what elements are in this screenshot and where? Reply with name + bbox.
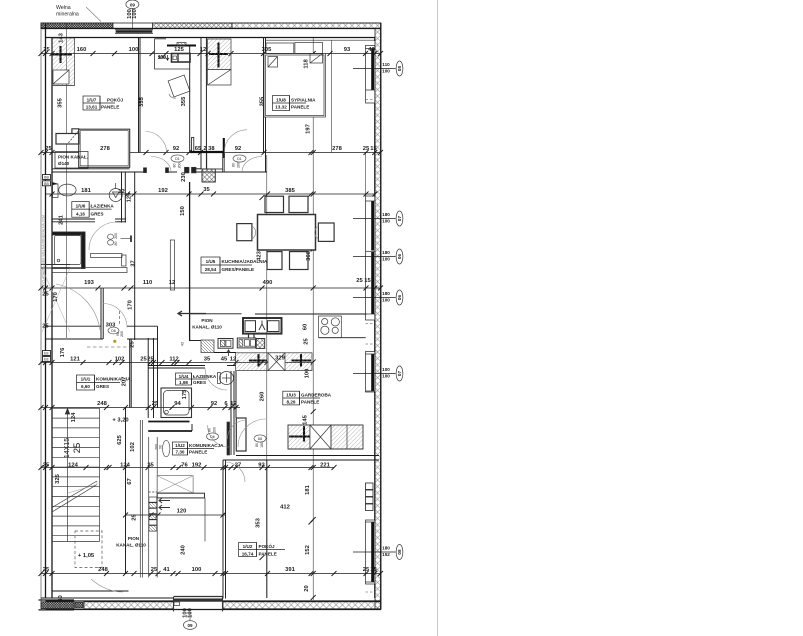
svg-text:192: 192 [192,463,202,469]
svg-text:241: 241 [59,214,65,224]
svg-text:D6: D6 [210,435,215,439]
svg-text:KANAŁ, Ø110: KANAŁ, Ø110 [192,325,222,330]
svg-text:200: 200 [178,163,182,169]
svg-text:D8: D8 [258,437,263,441]
svg-text:125: 125 [174,47,184,53]
svg-text:143: 143 [59,32,65,42]
svg-text:355: 355 [181,96,187,106]
svg-text:08: 08 [397,549,402,555]
svg-text:121: 121 [70,357,80,363]
svg-text:366: 366 [306,250,312,260]
svg-text:mineralna: mineralna [56,12,79,18]
svg-text:200: 200 [237,162,241,168]
svg-text:124: 124 [68,463,78,469]
svg-text:1/U1: 1/U1 [81,377,91,382]
svg-text:102: 102 [130,442,136,452]
svg-text:180: 180 [382,250,390,255]
svg-text:12: 12 [230,357,236,363]
svg-text:160: 160 [77,47,87,53]
svg-text:355: 355 [139,96,145,106]
svg-text:8,29: 8,29 [287,400,296,405]
svg-text:PION: PION [128,536,140,541]
svg-text:KOMUNIKACJA: KOMUNIKACJA [189,443,224,448]
svg-text:248: 248 [97,401,107,407]
svg-text:325: 325 [55,473,61,483]
svg-text:08: 08 [397,66,402,72]
svg-text:25: 25 [43,463,50,469]
svg-text:181: 181 [305,484,311,494]
svg-text:60: 60 [303,324,309,330]
svg-text:1/U3: 1/U3 [286,393,296,398]
svg-text:92: 92 [258,463,264,469]
svg-text:197: 197 [306,124,312,134]
svg-text:41: 41 [163,567,170,573]
svg-text:35: 35 [203,187,210,193]
svg-text:240: 240 [181,545,187,555]
svg-text:391: 391 [285,567,295,573]
svg-text:170: 170 [53,292,59,302]
svg-text:90: 90 [159,445,163,449]
svg-text:+ 3,20: + 3,20 [112,418,128,424]
svg-text:76: 76 [181,463,188,469]
svg-text:25: 25 [363,146,370,152]
svg-text:GRES: GRES [91,211,104,216]
svg-text:25: 25 [356,278,363,284]
svg-text:100: 100 [192,567,202,573]
svg-text:200: 200 [114,233,118,239]
svg-text:Wełna: Wełna [56,5,71,11]
svg-text:ŁAZIENKA: ŁAZIENKA [193,374,217,379]
svg-text:355: 355 [260,96,266,106]
svg-text:100: 100 [382,298,390,303]
svg-text:93: 93 [344,47,351,53]
svg-text:SYPIALNIA: SYPIALNIA [291,98,316,103]
svg-text:80: 80 [173,164,177,168]
svg-text:25: 25 [130,341,136,348]
svg-text:D6: D6 [111,329,116,333]
svg-text:100: 100 [158,55,166,60]
svg-text:25: 25 [72,443,83,454]
svg-text:07: 07 [397,371,402,377]
svg-text:25: 25 [132,514,138,521]
svg-text:248: 248 [98,567,108,573]
svg-text:152: 152 [305,545,311,555]
svg-text:25: 25 [43,567,50,573]
svg-text:170: 170 [128,300,134,310]
svg-text:120: 120 [177,509,187,515]
svg-text:329: 329 [275,356,285,362]
svg-text:D1: D1 [237,157,242,161]
svg-text:DYLATACJA 4MM WEŁNA MINERALNA: DYLATACJA 4MM WEŁNA MINERALNA 2CM [42,215,46,286]
svg-text:100: 100 [382,219,390,224]
svg-text:25: 25 [147,463,154,469]
svg-text:305: 305 [262,47,272,53]
svg-text:100: 100 [382,257,390,262]
svg-text:1/U6: 1/U6 [76,203,86,208]
svg-text:200: 200 [120,331,124,337]
svg-text:152: 152 [382,552,390,557]
svg-text:25: 25 [147,357,154,363]
svg-text:2 38: 2 38 [203,146,215,152]
svg-text:1,98: 1,98 [179,380,188,385]
svg-text:1/U2: 1/U2 [243,544,253,549]
svg-text:PION: PION [201,318,213,323]
svg-text:25: 25 [363,567,370,573]
svg-text:13,32: 13,32 [275,105,287,110]
svg-text:25: 25 [151,567,158,573]
svg-text:80: 80 [208,428,212,432]
svg-text:20: 20 [304,585,310,591]
svg-text:PANELE: PANELE [259,552,277,557]
svg-text:12: 12 [230,401,236,407]
svg-text:BB: BB [44,176,49,180]
svg-text:230: 230 [181,172,187,182]
svg-text:25: 25 [304,338,310,345]
svg-text:13,61: 13,61 [86,105,98,110]
svg-text:193: 193 [84,280,94,286]
svg-text:124: 124 [120,463,130,469]
svg-text:PANELE: PANELE [301,400,319,405]
svg-text:150: 150 [180,206,186,216]
svg-text:BB: BB [44,182,49,186]
svg-text:175: 175 [182,389,188,399]
svg-text:16,74: 16,74 [242,552,254,557]
svg-text:1/U8: 1/U8 [276,98,286,103]
svg-text:09: 09 [130,2,136,7]
svg-text:278: 278 [100,146,110,152]
svg-text:355: 355 [58,97,64,107]
svg-text:625: 625 [117,434,123,444]
svg-text:124: 124 [71,412,77,422]
svg-text:181: 181 [81,188,91,194]
svg-text:37: 37 [131,260,137,266]
svg-text:07: 07 [397,216,402,222]
svg-text:06: 06 [397,295,402,301]
svg-text:100: 100 [129,47,139,53]
svg-text:+ 1,05: + 1,05 [78,553,95,559]
svg-text:80: 80 [232,163,236,167]
svg-text:PANELE: PANELE [101,105,119,110]
svg-text:118: 118 [304,59,310,69]
svg-text:Ø140: Ø140 [58,161,70,166]
svg-text:176: 176 [60,347,66,357]
svg-text:40: 40 [58,595,64,601]
svg-text:PANELE: PANELE [189,450,207,455]
svg-text:25: 25 [43,47,50,53]
svg-text:92: 92 [211,401,217,407]
svg-text:35: 35 [204,357,211,363]
svg-text:353: 353 [256,517,262,527]
svg-text:KOMUNIKACJA: KOMUNIKACJA [96,377,131,382]
svg-text:180: 180 [382,291,390,296]
svg-text:80: 80 [114,242,118,246]
svg-text:43: 43 [181,342,185,346]
svg-text:1/U2: 1/U2 [175,443,185,448]
svg-text:1/U5: 1/U5 [206,259,216,264]
svg-text:100: 100 [188,608,194,618]
svg-text:EE: EE [44,352,49,356]
svg-text:45: 45 [221,357,228,363]
svg-text:15: 15 [364,278,371,284]
svg-text:192: 192 [158,188,168,194]
svg-text:200: 200 [213,427,217,433]
svg-text:100: 100 [132,9,138,19]
svg-text:40: 40 [368,47,374,53]
svg-text:412: 412 [280,505,290,511]
svg-text:D1: D1 [175,157,180,161]
svg-text:KUCHNIA/JADALNIA: KUCHNIA/JADALNIA [222,259,268,264]
svg-text:25: 25 [152,401,159,407]
svg-text:80: 80 [255,443,259,447]
svg-text:GARDEROBA: GARDEROBA [301,393,332,398]
svg-text:28,54: 28,54 [205,267,217,272]
svg-text:PION KANAŁ.: PION KANAŁ. [58,155,88,160]
svg-text:180: 180 [382,212,390,217]
svg-text:09: 09 [187,623,193,628]
svg-text:GRES: GRES [96,384,109,389]
svg-text:12: 12 [169,280,175,286]
svg-text:100: 100 [305,369,311,379]
svg-text:6,60: 6,60 [81,384,90,389]
svg-text:92: 92 [173,146,179,152]
svg-text:ŁAZIENKA: ŁAZIENKA [91,203,115,208]
svg-text:102: 102 [115,357,125,363]
svg-text:15: 15 [370,146,377,152]
svg-text:GRES: GRES [193,380,206,385]
svg-text:180: 180 [260,442,264,448]
svg-text:25: 25 [42,292,49,298]
svg-text:94: 94 [174,401,181,407]
svg-text:145: 145 [303,414,309,424]
svg-text:14X15: 14X15 [64,438,71,458]
svg-text:110: 110 [382,62,390,67]
svg-text:260: 260 [260,392,266,402]
svg-text:1/U7: 1/U7 [87,98,97,103]
svg-text:25: 25 [45,146,52,152]
svg-text:GRES/PANELE: GRES/PANELE [222,267,255,272]
svg-text:1/U4: 1/U4 [179,374,189,379]
svg-text:490: 490 [263,280,273,286]
svg-text:110: 110 [143,280,152,286]
svg-text:100: 100 [382,367,390,372]
svg-text:100: 100 [382,69,390,74]
svg-text:100: 100 [382,374,390,379]
svg-text:06: 06 [397,254,402,260]
svg-text:12: 12 [118,189,124,195]
svg-text:15: 15 [370,567,377,573]
svg-text:12: 12 [200,47,206,53]
svg-text:65: 65 [195,146,202,152]
svg-text:278: 278 [332,146,342,152]
svg-text:125: 125 [127,192,133,202]
svg-text:112: 112 [169,357,178,363]
svg-text:EE: EE [44,358,49,362]
svg-text:PANELE: PANELE [291,105,309,110]
svg-text:POKÓJ: POKÓJ [259,542,276,549]
svg-text:POKÓJ: POKÓJ [107,96,124,103]
svg-text:385: 385 [285,188,295,194]
svg-text:92: 92 [235,146,241,152]
svg-text:180: 180 [382,546,390,551]
svg-text:67: 67 [127,478,133,484]
svg-text:221: 221 [320,463,330,469]
svg-text:7,30: 7,30 [176,450,185,455]
svg-text:25: 25 [42,324,49,330]
svg-text:27: 27 [235,463,241,469]
svg-text:KANAŁ, Ø110: KANAŁ, Ø110 [116,543,146,548]
svg-text:4,16: 4,16 [76,211,85,216]
